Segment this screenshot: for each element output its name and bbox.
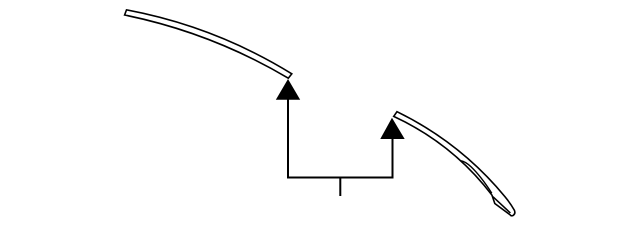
arrow 2 head	[381, 119, 404, 139]
strip 2 end-cap wedge inner line	[493, 197, 511, 213]
arrow 1 head	[277, 80, 300, 99]
center stub leader	[339, 178, 341, 197]
molding strip 1 (upper-left curved band)	[125, 10, 292, 78]
strip 2 crease line	[461, 161, 492, 194]
molding strip 2 (right curved band)	[394, 112, 515, 216]
arrow 1 stem	[287, 99, 289, 178]
bracket horizontal line	[287, 177, 393, 179]
arrow 2 stem	[392, 138, 394, 179]
